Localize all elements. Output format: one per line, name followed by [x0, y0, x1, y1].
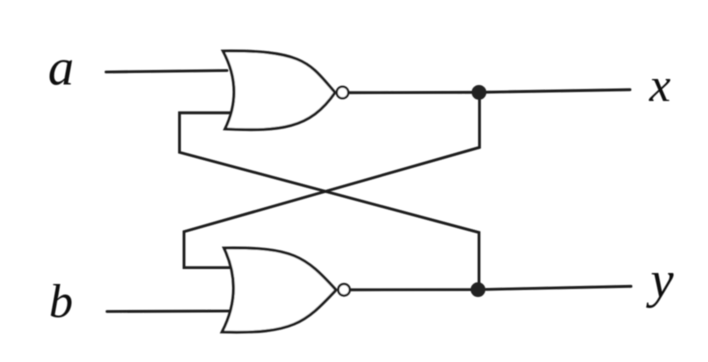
svg-text:a: a [48, 40, 74, 97]
svg-text:y: y [645, 252, 674, 309]
svg-text:b: b [49, 275, 73, 328]
svg-text:x: x [648, 59, 670, 112]
